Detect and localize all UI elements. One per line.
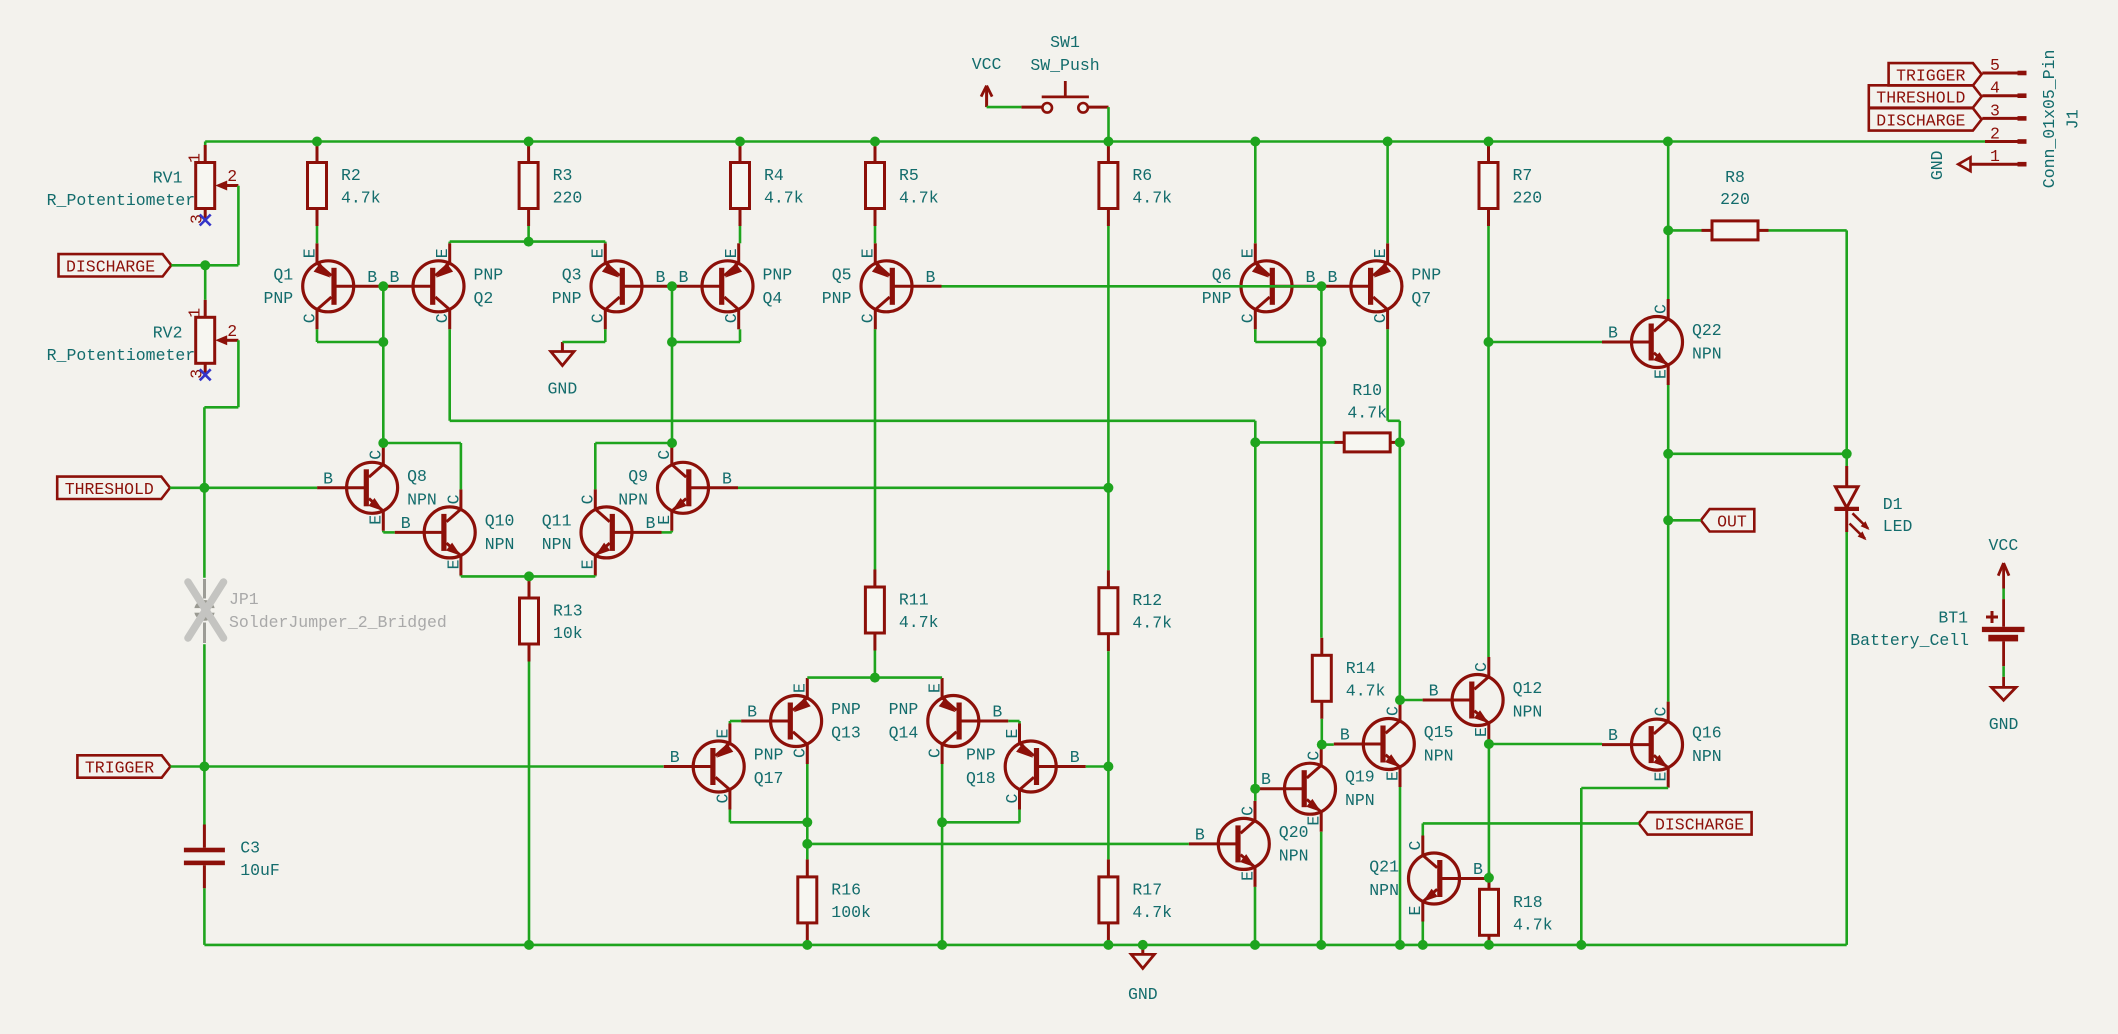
svg-text:R14: R14: [1346, 659, 1376, 678]
svg-text:Q11: Q11: [542, 511, 572, 530]
svg-text:PNP: PNP: [822, 289, 852, 308]
svg-text:Q15: Q15: [1424, 723, 1454, 742]
svg-text:B: B: [1070, 748, 1080, 767]
svg-text:C: C: [1652, 707, 1671, 717]
svg-text:4.7k: 4.7k: [899, 189, 939, 208]
svg-text:2: 2: [227, 322, 237, 341]
svg-text:Q5: Q5: [832, 265, 852, 284]
svg-text:C: C: [859, 313, 878, 323]
svg-text:R12: R12: [1132, 591, 1162, 610]
svg-text:SW_Push: SW_Push: [1030, 56, 1099, 75]
svg-text:B: B: [323, 469, 333, 488]
svg-text:R_Potentiometer: R_Potentiometer: [47, 346, 196, 365]
svg-text:Q1: Q1: [273, 265, 293, 284]
svg-text:C: C: [1238, 806, 1257, 816]
svg-text:E: E: [1239, 248, 1258, 258]
svg-text:2: 2: [227, 167, 237, 186]
svg-text:GND: GND: [1928, 150, 1947, 180]
svg-text:RV1: RV1: [153, 169, 183, 188]
svg-text:R11: R11: [899, 591, 929, 610]
svg-text:B: B: [1608, 726, 1618, 745]
svg-text:E: E: [367, 515, 386, 525]
svg-text:Q10: Q10: [485, 511, 515, 530]
svg-text:B: B: [747, 703, 757, 722]
svg-text:E: E: [433, 248, 452, 258]
svg-text:B: B: [1608, 324, 1618, 343]
svg-text:C: C: [655, 450, 674, 460]
svg-text:R2: R2: [341, 166, 361, 185]
svg-text:C: C: [713, 793, 732, 803]
svg-text:R10: R10: [1352, 381, 1382, 400]
svg-text:PNP: PNP: [966, 746, 996, 765]
svg-text:B: B: [1195, 825, 1205, 844]
svg-text:4.7k: 4.7k: [1346, 681, 1386, 700]
svg-text:5: 5: [1990, 56, 2000, 75]
svg-text:Q20: Q20: [1279, 823, 1309, 842]
svg-text:GND: GND: [548, 380, 578, 399]
svg-text:R16: R16: [831, 880, 861, 899]
svg-text:PNP: PNP: [889, 700, 919, 719]
svg-text:E: E: [1003, 728, 1022, 738]
svg-text:C: C: [1652, 304, 1671, 314]
svg-text:Q13: Q13: [831, 724, 861, 743]
svg-text:C: C: [433, 313, 452, 323]
svg-text:C: C: [1239, 313, 1258, 323]
svg-text:1: 1: [186, 308, 205, 318]
svg-text:NPN: NPN: [618, 490, 648, 509]
svg-text:R7: R7: [1513, 166, 1533, 185]
svg-text:E: E: [1472, 727, 1491, 737]
svg-text:E: E: [722, 248, 741, 258]
svg-text:C: C: [444, 494, 463, 504]
svg-text:SW1: SW1: [1050, 33, 1080, 52]
svg-text:OUT: OUT: [1717, 513, 1747, 532]
svg-text:Q8: Q8: [407, 467, 427, 486]
svg-text:SolderJumper_2_Bridged: SolderJumper_2_Bridged: [229, 613, 447, 632]
svg-text:PNP: PNP: [474, 265, 504, 284]
svg-text:TRIGGER: TRIGGER: [1896, 67, 1965, 86]
svg-text:R_Potentiometer: R_Potentiometer: [47, 191, 196, 210]
svg-text:4.7k: 4.7k: [1132, 189, 1172, 208]
svg-text:B: B: [390, 268, 400, 287]
svg-text:Q2: Q2: [474, 289, 494, 308]
svg-text:4.7k: 4.7k: [899, 613, 939, 632]
svg-text:B: B: [656, 268, 666, 287]
svg-text:4: 4: [1990, 79, 2000, 98]
svg-text:THRESHOLD: THRESHOLD: [65, 480, 154, 499]
svg-text:NPN: NPN: [485, 535, 515, 554]
svg-text:Q14: Q14: [889, 724, 919, 743]
svg-text:10k: 10k: [553, 624, 583, 643]
svg-text:Q18: Q18: [966, 769, 996, 788]
svg-text:4.7k: 4.7k: [1513, 915, 1553, 934]
svg-text:4.7k: 4.7k: [1132, 614, 1172, 633]
svg-text:D1: D1: [1883, 495, 1903, 514]
svg-text:E: E: [1371, 248, 1390, 258]
svg-text:TRIGGER: TRIGGER: [85, 759, 154, 778]
svg-text:C: C: [1305, 751, 1324, 761]
svg-text:PNP: PNP: [1202, 289, 1232, 308]
svg-text:C: C: [367, 450, 386, 460]
svg-text:R18: R18: [1513, 893, 1543, 912]
svg-text:E: E: [1652, 772, 1671, 782]
svg-text:THRESHOLD: THRESHOLD: [1876, 89, 1965, 108]
svg-text:NPN: NPN: [1513, 703, 1543, 722]
svg-text:B: B: [722, 469, 732, 488]
svg-text:R17: R17: [1132, 880, 1162, 899]
svg-text:R3: R3: [553, 166, 573, 185]
svg-text:C: C: [300, 313, 319, 323]
svg-text:PNP: PNP: [263, 289, 293, 308]
svg-text:C: C: [579, 494, 598, 504]
svg-text:NPN: NPN: [1692, 345, 1722, 364]
svg-text:C: C: [791, 748, 810, 758]
svg-text:B: B: [646, 514, 656, 533]
svg-text:R5: R5: [899, 166, 919, 185]
svg-text:Q7: Q7: [1411, 289, 1431, 308]
svg-text:NPN: NPN: [1692, 747, 1722, 766]
svg-text:NPN: NPN: [407, 490, 437, 509]
svg-text:LED: LED: [1883, 517, 1913, 536]
svg-text:B: B: [1340, 726, 1350, 745]
svg-text:B: B: [926, 268, 936, 287]
svg-text:220: 220: [553, 189, 583, 208]
svg-text:4.7k: 4.7k: [764, 189, 804, 208]
svg-text:E: E: [444, 559, 463, 569]
svg-text:DISCHARGE: DISCHARGE: [66, 258, 155, 277]
svg-text:R8: R8: [1725, 168, 1745, 187]
svg-text:E: E: [1383, 771, 1402, 781]
svg-text:PNP: PNP: [1411, 265, 1441, 284]
svg-text:B: B: [1261, 770, 1271, 789]
svg-text:E: E: [791, 683, 810, 693]
svg-text:NPN: NPN: [1279, 846, 1309, 865]
svg-text:E: E: [926, 683, 945, 693]
svg-text:J1: J1: [2064, 109, 2083, 129]
svg-text:R6: R6: [1132, 166, 1152, 185]
svg-text:4.7k: 4.7k: [1347, 404, 1387, 423]
svg-text:VCC: VCC: [972, 55, 1002, 74]
svg-text:B: B: [367, 268, 377, 287]
svg-text:E: E: [655, 515, 674, 525]
svg-text:220: 220: [1513, 189, 1543, 208]
svg-text:100k: 100k: [831, 903, 871, 922]
svg-text:Q16: Q16: [1692, 724, 1722, 743]
svg-text:Q4: Q4: [763, 289, 783, 308]
svg-text:R13: R13: [553, 602, 583, 621]
svg-text:PNP: PNP: [754, 746, 784, 765]
svg-text:DISCHARGE: DISCHARGE: [1655, 816, 1744, 835]
svg-text:Q9: Q9: [628, 467, 648, 486]
svg-text:C: C: [1003, 793, 1022, 803]
svg-text:B: B: [1429, 682, 1439, 701]
svg-text:E: E: [589, 248, 608, 258]
svg-text:GND: GND: [1128, 985, 1158, 1004]
svg-text:Q17: Q17: [754, 769, 784, 788]
svg-text:E: E: [579, 559, 598, 569]
svg-text:E: E: [1406, 905, 1425, 915]
svg-text:RV2: RV2: [153, 323, 183, 342]
svg-text:C3: C3: [240, 839, 260, 858]
svg-text:C: C: [1371, 313, 1390, 323]
svg-text:PNP: PNP: [552, 289, 582, 308]
svg-text:E: E: [1652, 369, 1671, 379]
svg-text:E: E: [713, 728, 732, 738]
svg-text:4.7k: 4.7k: [341, 189, 381, 208]
svg-text:1: 1: [1990, 147, 2000, 166]
svg-text:C: C: [1383, 706, 1402, 716]
svg-text:B: B: [670, 748, 680, 767]
svg-text:NPN: NPN: [1424, 747, 1454, 766]
svg-text:B: B: [992, 703, 1002, 722]
svg-text:BT1: BT1: [1938, 609, 1968, 628]
svg-text:3: 3: [1990, 101, 2000, 120]
svg-text:C: C: [722, 313, 741, 323]
svg-text:NPN: NPN: [542, 535, 572, 554]
svg-text:Q22: Q22: [1692, 321, 1722, 340]
svg-text:JP1: JP1: [229, 590, 259, 609]
svg-text:10uF: 10uF: [240, 861, 280, 880]
svg-text:PNP: PNP: [831, 700, 861, 719]
svg-text:R4: R4: [764, 166, 784, 185]
svg-text:Q6: Q6: [1212, 265, 1232, 284]
svg-text:B: B: [1473, 860, 1483, 879]
svg-text:Battery_Cell: Battery_Cell: [1850, 631, 1969, 650]
svg-text:PNP: PNP: [763, 265, 793, 284]
svg-text:2: 2: [1990, 125, 2000, 144]
svg-text:B: B: [401, 514, 411, 533]
svg-text:1: 1: [186, 153, 205, 163]
svg-text:VCC: VCC: [1989, 536, 2019, 555]
svg-text:4.7k: 4.7k: [1132, 903, 1172, 922]
svg-text:220: 220: [1720, 190, 1750, 209]
svg-text:E: E: [859, 248, 878, 258]
svg-text:Conn_01x05_Pin: Conn_01x05_Pin: [2040, 50, 2059, 189]
svg-text:C: C: [926, 748, 945, 758]
svg-text:B: B: [679, 268, 689, 287]
svg-text:B: B: [1306, 268, 1316, 287]
svg-text:GND: GND: [1989, 715, 2019, 734]
svg-text:NPN: NPN: [1345, 791, 1375, 810]
svg-text:Q21: Q21: [1369, 858, 1399, 877]
svg-text:Q12: Q12: [1513, 679, 1543, 698]
svg-text:NPN: NPN: [1369, 881, 1399, 900]
svg-text:DISCHARGE: DISCHARGE: [1876, 112, 1965, 131]
svg-text:E: E: [1238, 871, 1257, 881]
svg-text:Q19: Q19: [1345, 768, 1375, 787]
svg-text:B: B: [1327, 268, 1337, 287]
svg-text:C: C: [589, 313, 608, 323]
svg-text:Q3: Q3: [562, 265, 582, 284]
svg-text:E: E: [300, 248, 319, 258]
svg-text:C: C: [1406, 840, 1425, 850]
svg-text:C: C: [1472, 662, 1491, 672]
